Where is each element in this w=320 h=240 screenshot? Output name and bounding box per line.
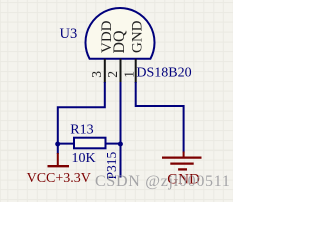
svg-text:VCC+3.3V: VCC+3.3V <box>27 171 91 186</box>
svg-text:DQ: DQ <box>111 30 128 54</box>
svg-text:CSDN @zjl000511: CSDN @zjl000511 <box>95 173 231 190</box>
svg-text:R13: R13 <box>70 122 93 137</box>
svg-text:GND: GND <box>129 20 145 53</box>
svg-text:DS18B20: DS18B20 <box>136 66 191 81</box>
svg-text:10K: 10K <box>72 151 96 166</box>
pin 1 (GND) <box>135 59 137 83</box>
sensor U3 DS18B20 TO-92 package body <box>86 8 155 59</box>
svg-text:2: 2 <box>105 71 120 78</box>
wire R13 left to VDD net <box>58 143 74 145</box>
junction dot A <box>55 142 60 147</box>
wire GND: pin1 down, right, down <box>136 82 184 153</box>
ground bar 2 <box>170 162 193 164</box>
wire DQ: pin2 straight down <box>120 82 122 178</box>
VCC power bar <box>48 165 70 167</box>
pin 2 (DQ) <box>120 59 122 83</box>
junction dot B <box>118 142 123 147</box>
ground bar 1 <box>162 156 202 158</box>
wire VDD: pin3 down, left, down to VCC <box>58 82 105 154</box>
svg-text:1: 1 <box>121 71 136 78</box>
ground symbol stub <box>183 152 185 158</box>
wire R13 right to DQ net <box>106 143 121 145</box>
pin 3 (VDD) <box>104 59 106 83</box>
ground bar 3 <box>178 168 187 170</box>
svg-text:3: 3 <box>89 71 104 78</box>
resistor R13 <box>74 138 106 149</box>
VCC power symbol stub <box>57 153 59 166</box>
svg-text:U3: U3 <box>60 26 78 42</box>
